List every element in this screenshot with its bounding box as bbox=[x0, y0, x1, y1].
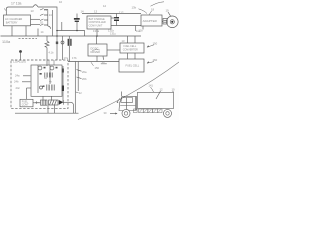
switch hump bbox=[33, 5, 38, 7]
svg-text:11b: 11b bbox=[139, 29, 144, 33]
label 18 bbox=[151, 8, 155, 12]
tick bbox=[135, 26, 137, 32]
chassis boxes bbox=[134, 109, 163, 113]
svg-text:13: 13 bbox=[94, 10, 98, 14]
svg-text:110a: 110a bbox=[2, 40, 11, 44]
svg-text:12: 12 bbox=[103, 4, 107, 8]
svg-text:20b: 20b bbox=[82, 77, 87, 81]
svg-text:14: 14 bbox=[49, 13, 53, 17]
wire bbox=[38, 7, 57, 36]
roof leader bbox=[121, 92, 123, 97]
label 10 truck bbox=[172, 88, 176, 92]
svg-text:CONV UNIT: CONV UNIT bbox=[89, 24, 103, 27]
tick bbox=[37, 29, 39, 37]
leader 19 bbox=[168, 12, 171, 16]
wire to fuel cell bbox=[68, 61, 119, 63]
dark mark right edge upper bbox=[62, 69, 64, 73]
mirror bbox=[118, 98, 120, 101]
wire bbox=[31, 24, 41, 26]
igbt row A bbox=[38, 65, 58, 84]
small marks before row bbox=[35, 101, 40, 104]
vertical feeder bbox=[52, 10, 54, 36]
svg-text:CONT: CONT bbox=[22, 104, 29, 107]
wire from box to switches bbox=[31, 18, 41, 20]
hatched resistor bbox=[49, 100, 59, 105]
middle labels bbox=[44, 77, 52, 83]
row B dark tab bbox=[40, 73, 42, 75]
coupling box bbox=[163, 19, 167, 25]
svg-text:FUEL CELL: FUEL CELL bbox=[126, 64, 140, 68]
feeder with circle bbox=[62, 36, 64, 60]
svg-text:24a: 24a bbox=[15, 74, 20, 78]
lower transistor cluster bbox=[38, 84, 55, 93]
verticals to rail bbox=[47, 105, 49, 113]
labels 17a 17b bbox=[64, 56, 77, 60]
label 12b bbox=[44, 8, 47, 12]
cab door line bbox=[126, 97, 128, 109]
dark bar component bbox=[62, 86, 64, 92]
label 17 13a bbox=[11, 1, 21, 5]
control box 24 bbox=[20, 99, 33, 107]
capacitor 112 bbox=[114, 14, 119, 26]
solar cell box 110 bbox=[4, 15, 31, 26]
front wheel bbox=[122, 109, 130, 117]
svg-text:17 13a: 17 13a bbox=[11, 1, 21, 5]
label 11b bbox=[139, 29, 144, 33]
svg-text:4.1b: 4.1b bbox=[49, 51, 54, 54]
dashed stub bbox=[19, 37, 38, 39]
truck cab bbox=[119, 96, 136, 110]
wire top rail bbox=[6, 7, 33, 15]
svg-text:24c: 24c bbox=[16, 86, 21, 90]
feeder with zigzag bbox=[46, 36, 48, 41]
main bus bbox=[1, 35, 142, 37]
bottom hatched box bbox=[41, 100, 48, 105]
svg-text:13b: 13b bbox=[132, 6, 137, 10]
wire bbox=[111, 17, 117, 19]
wire bend to rail bbox=[71, 102, 74, 113]
svg-text:17a: 17a bbox=[64, 56, 69, 60]
label 110A 120 bbox=[13, 60, 26, 64]
inner box bbox=[31, 65, 62, 96]
svg-text:12: 12 bbox=[160, 88, 164, 92]
vertical feeder right bbox=[74, 62, 76, 114]
labels 24a 24b bbox=[14, 74, 20, 90]
switch bank bbox=[40, 9, 51, 29]
wire to adapter bbox=[111, 25, 141, 27]
svg-text:150: 150 bbox=[95, 66, 100, 70]
outer dashed box 110 bbox=[11, 60, 68, 109]
label 13 bbox=[31, 9, 35, 13]
label 141 bbox=[149, 83, 154, 87]
ticks inner box to row bbox=[42, 96, 44, 100]
rear wheel bbox=[164, 109, 172, 117]
svg-text:112: 112 bbox=[119, 11, 124, 15]
label 92 bbox=[40, 20, 43, 24]
vertical feeder right 2 bbox=[77, 62, 79, 92]
truck cargo box bbox=[138, 92, 174, 108]
label 10 bbox=[59, 0, 63, 4]
leader 18 bbox=[149, 11, 152, 15]
svg-text:AC CHARGER: AC CHARGER bbox=[5, 17, 22, 21]
svg-text:141: 141 bbox=[149, 83, 154, 87]
label 12 13b bbox=[132, 6, 137, 10]
cab window bbox=[121, 98, 133, 103]
svg-text:24b: 24b bbox=[14, 80, 19, 84]
label 44 bbox=[41, 30, 44, 34]
igbt row B hatch bbox=[45, 73, 53, 78]
svg-text:18: 18 bbox=[151, 8, 155, 12]
svg-text:17b: 17b bbox=[72, 56, 77, 60]
feeder with bars bbox=[68, 36, 70, 62]
bottom rail bbox=[15, 112, 79, 114]
svg-text:14: 14 bbox=[81, 9, 85, 13]
label above converter bbox=[122, 39, 125, 43]
svg-text:13: 13 bbox=[31, 9, 35, 13]
tick controller to bus bbox=[96, 29, 98, 36]
labels 20a 20b bbox=[82, 70, 87, 81]
wire bus 11 bbox=[82, 13, 141, 15]
svg-text:20a: 20a bbox=[82, 70, 87, 74]
label 19 bbox=[166, 9, 170, 13]
feeder with element bbox=[56, 36, 58, 60]
svg-text:10: 10 bbox=[59, 0, 63, 4]
hook tip bbox=[5, 8, 7, 10]
tick adapter bottom bbox=[142, 26, 144, 30]
leader diagonal bbox=[78, 62, 179, 120]
label 12 truck bbox=[160, 88, 164, 92]
fuel cell box bbox=[119, 59, 144, 72]
arc leader top right bbox=[151, 2, 165, 6]
battery 12 bbox=[74, 14, 80, 31]
label 22 bbox=[79, 91, 82, 95]
dc box 16 bbox=[88, 44, 107, 56]
label 110a bbox=[2, 40, 11, 44]
svg-text:DRIVER: DRIVER bbox=[91, 51, 101, 54]
wheel 19 bbox=[167, 16, 179, 28]
label 13 above box bbox=[94, 10, 98, 14]
label 11b small bbox=[49, 51, 54, 54]
label 150 bbox=[153, 41, 158, 45]
wire bbox=[63, 101, 71, 103]
wire mid rail bbox=[57, 31, 85, 37]
leader curve bbox=[139, 9, 148, 14]
svg-text:110A(120): 110A(120) bbox=[13, 60, 26, 64]
label 112 bbox=[119, 11, 124, 15]
label 150b bbox=[95, 66, 100, 70]
label 14 bbox=[49, 13, 53, 17]
tick bbox=[25, 26, 27, 36]
vertical short bbox=[61, 22, 63, 31]
svg-text:ADAPTER: ADAPTER bbox=[143, 19, 158, 23]
label 11c bbox=[136, 29, 141, 33]
label 12 bbox=[103, 4, 107, 8]
connector dot bbox=[19, 50, 22, 53]
tick bbox=[11, 26, 13, 36]
junction dots bbox=[56, 30, 98, 37]
svg-text:131c: 131c bbox=[110, 32, 116, 36]
svg-text:131a: 131a bbox=[93, 29, 99, 33]
wire bbox=[162, 21, 163, 23]
label 160 bbox=[153, 58, 158, 62]
svg-text:CONVERTER: CONVERTER bbox=[123, 49, 138, 52]
verticals inside bbox=[48, 60, 50, 65]
svg-text:19: 19 bbox=[166, 9, 170, 13]
labels 131a 131b bbox=[93, 28, 116, 35]
cab gap bbox=[135, 96, 137, 111]
tag 16 bbox=[102, 60, 105, 64]
svg-text:BATTERY: BATTERY bbox=[6, 21, 18, 25]
converter box bbox=[120, 43, 144, 53]
adapter box 18 bbox=[141, 15, 162, 26]
arrow 30 bbox=[104, 111, 107, 115]
controller box 130 bbox=[87, 16, 111, 29]
diode bbox=[59, 100, 64, 105]
